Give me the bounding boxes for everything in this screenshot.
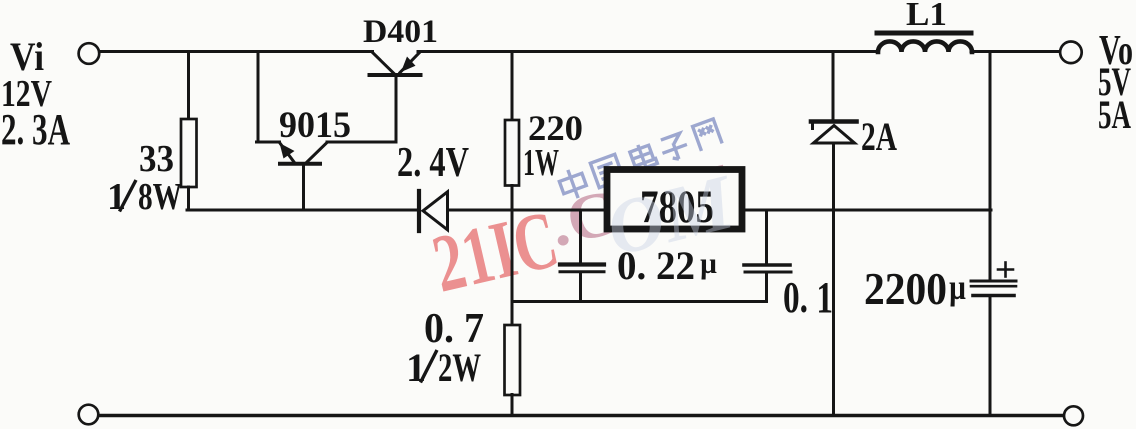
svg-text:µ: µ [949, 267, 966, 307]
svg-text:µ: µ [700, 247, 717, 280]
svg-text:0. 1: 0. 1 [783, 273, 833, 322]
svg-text:1: 1 [107, 176, 126, 218]
svg-text:L1: L1 [906, 0, 947, 33]
svg-text:5A: 5A [1098, 92, 1131, 137]
svg-text:D401: D401 [363, 14, 438, 50]
svg-text:9015: 9015 [279, 105, 351, 146]
svg-text:2W: 2W [438, 345, 481, 390]
svg-text:2. 3A: 2. 3A [1, 105, 70, 154]
svg-text:2A: 2A [861, 114, 897, 159]
svg-text:33: 33 [139, 138, 174, 180]
svg-text:8W: 8W [138, 176, 182, 218]
svg-text:1: 1 [406, 345, 426, 390]
svg-text:1W: 1W [523, 142, 559, 184]
svg-text:2. 4V: 2. 4V [397, 140, 469, 186]
svg-text:2200: 2200 [864, 264, 947, 314]
